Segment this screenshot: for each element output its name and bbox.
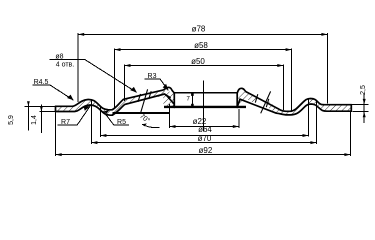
- svg-text:R7: R7: [61, 119, 70, 126]
- svg-text:ø70: ø70: [198, 134, 212, 143]
- svg-text:ø50: ø50: [191, 57, 205, 66]
- svg-text:ø78: ø78: [192, 25, 206, 34]
- svg-text:4 отв.: 4 отв.: [56, 62, 75, 69]
- svg-text:5,9: 5,9: [8, 115, 15, 125]
- svg-text:ø92: ø92: [199, 146, 213, 155]
- svg-text:R5: R5: [117, 119, 126, 126]
- svg-text:R4.5: R4.5: [34, 79, 49, 86]
- svg-text:2,5: 2,5: [360, 85, 367, 95]
- svg-text:ø8: ø8: [55, 53, 63, 60]
- svg-text:1,4: 1,4: [31, 115, 38, 125]
- svg-text:R3: R3: [148, 73, 157, 80]
- svg-text:ø64: ø64: [198, 125, 212, 134]
- svg-text:ø58: ø58: [194, 41, 208, 50]
